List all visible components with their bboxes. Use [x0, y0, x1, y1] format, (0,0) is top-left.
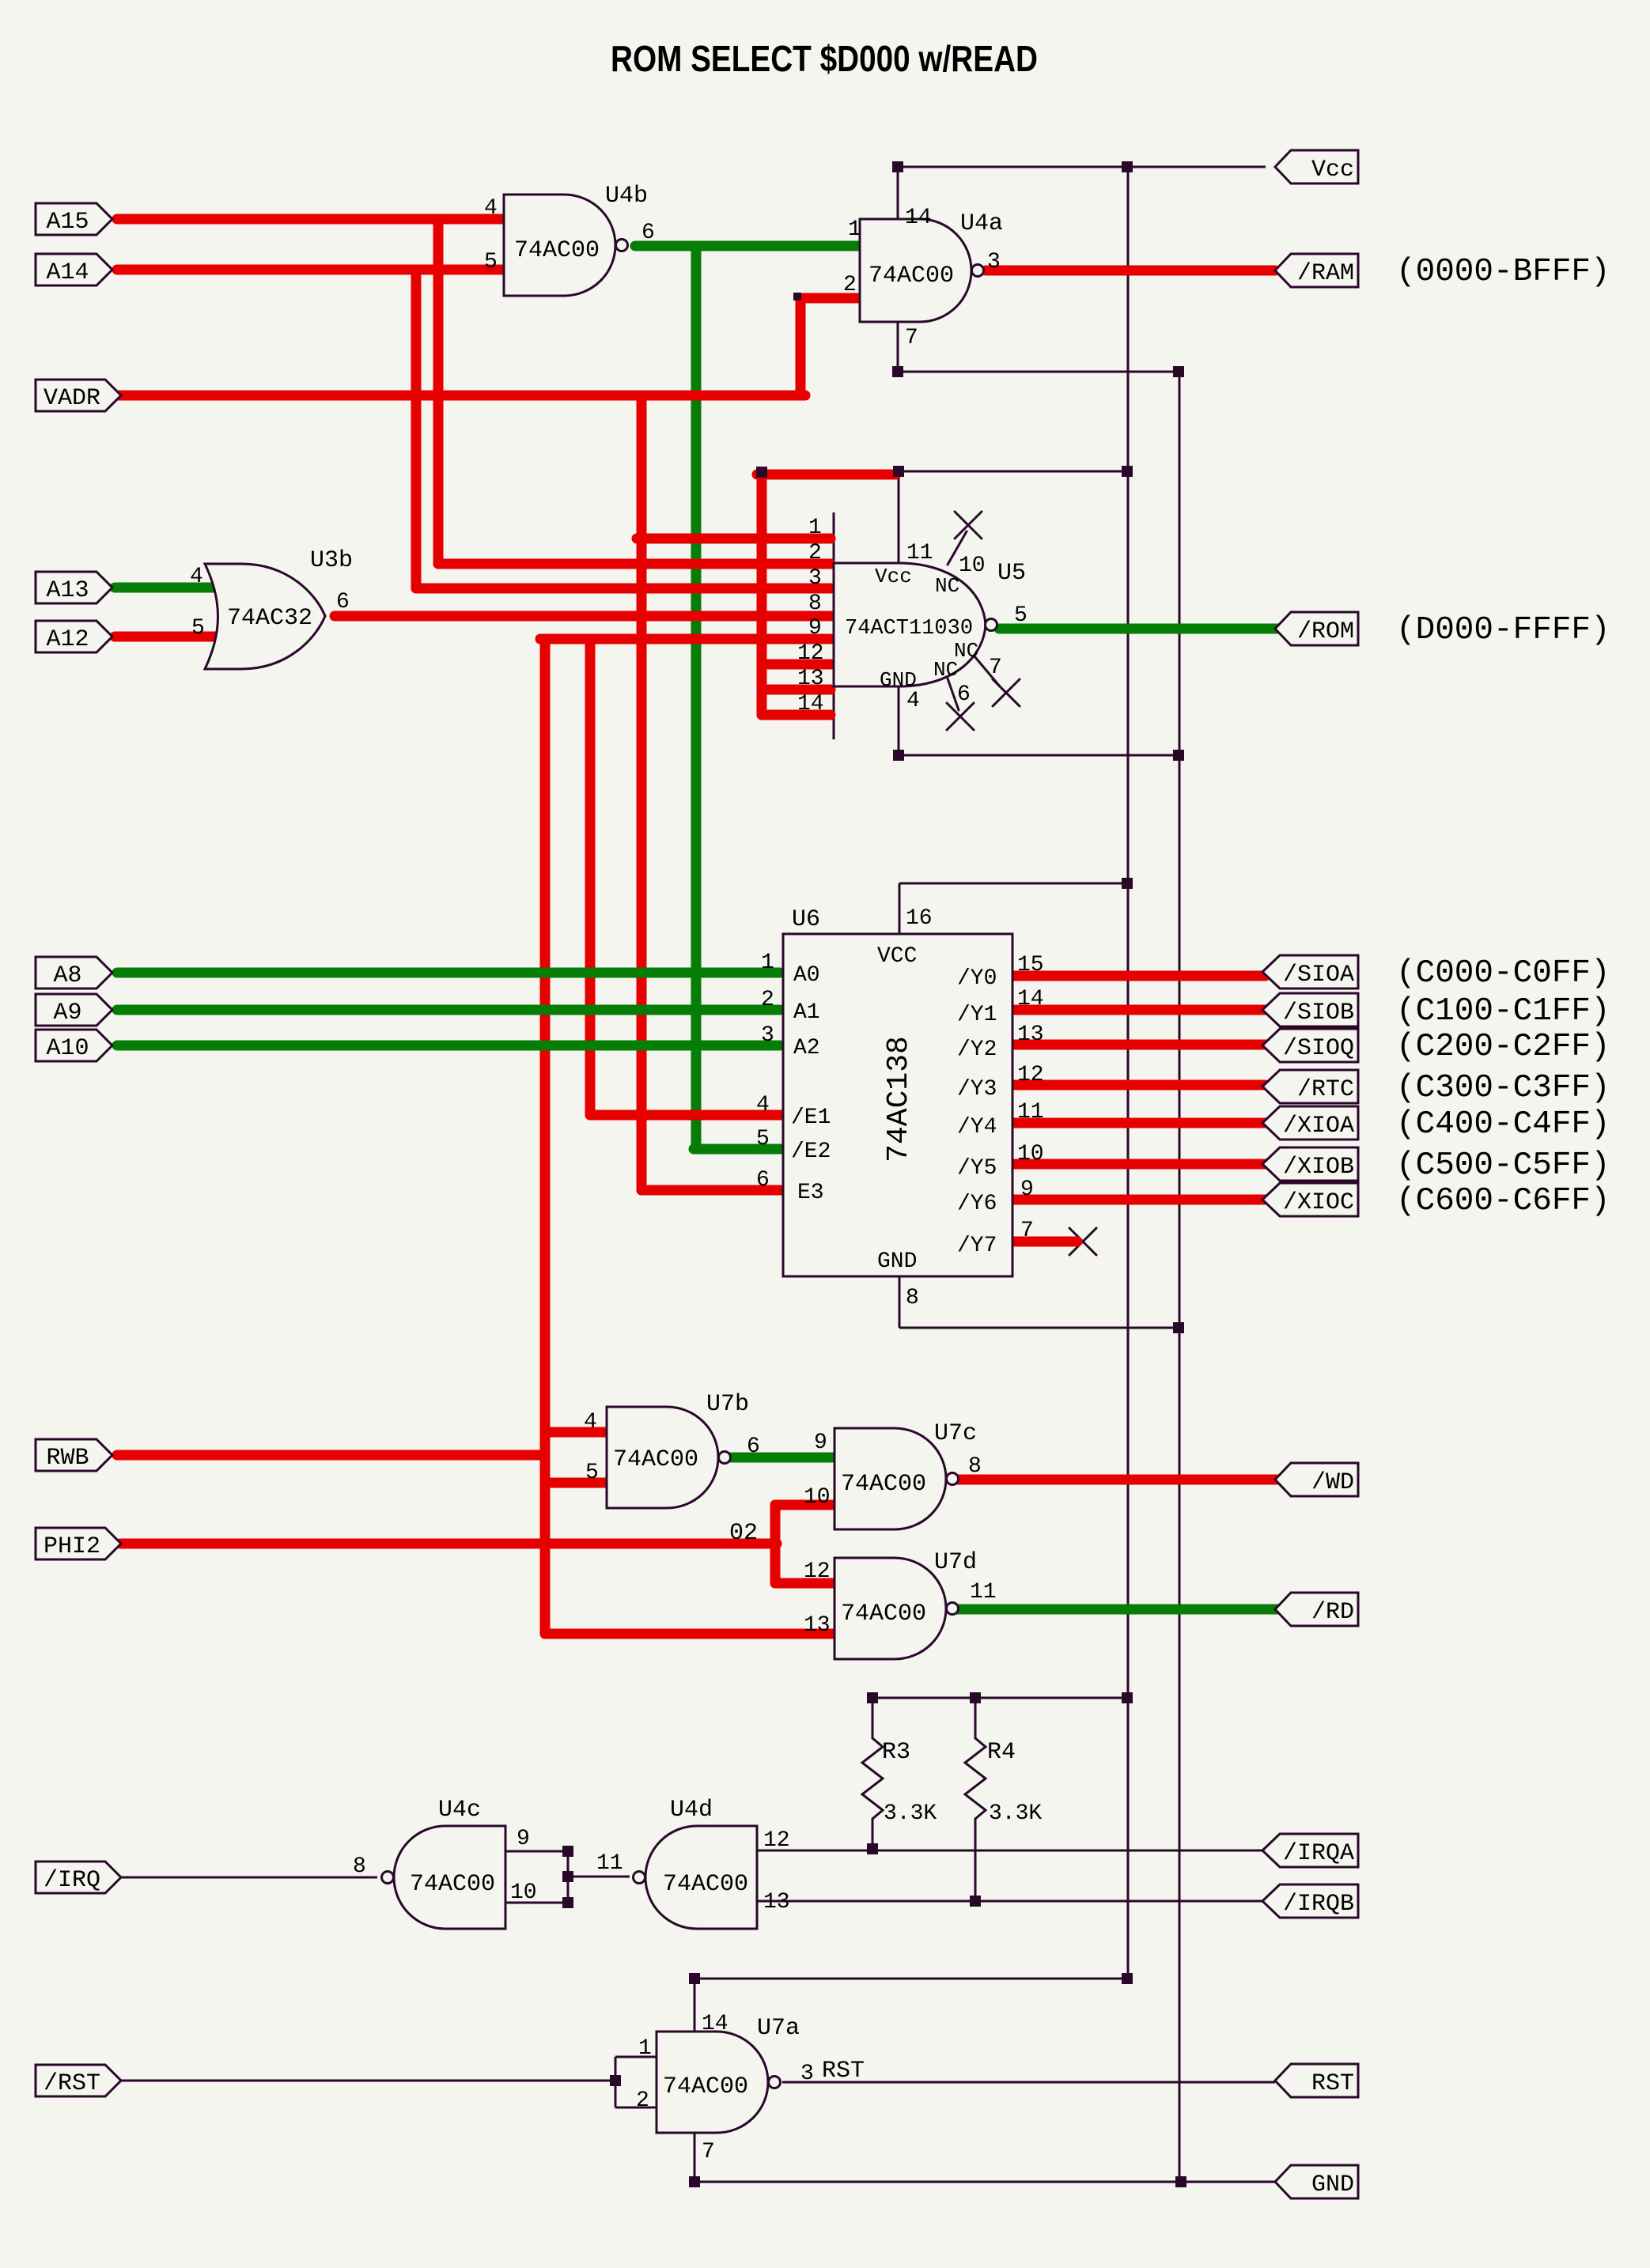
svg-text:A1: A1: [793, 1000, 820, 1025]
svg-text:1: 1: [638, 2036, 652, 2061]
svg-text:/Y1: /Y1: [957, 1003, 997, 1027]
svg-text:10: 10: [510, 1881, 537, 1905]
svg-text:Vcc: Vcc: [875, 565, 912, 588]
svg-text:NC: NC: [933, 658, 958, 682]
svg-text:/IRQA: /IRQA: [1283, 1840, 1354, 1867]
svg-text:4: 4: [584, 1410, 597, 1435]
svg-text:74AC00: 74AC00: [410, 1871, 495, 1898]
svg-text:A12: A12: [46, 626, 89, 653]
svg-text:13: 13: [1017, 1022, 1044, 1047]
svg-text:6: 6: [641, 221, 655, 245]
svg-text:7: 7: [905, 326, 918, 350]
svg-text:74AC00: 74AC00: [841, 1471, 926, 1498]
svg-text:13: 13: [763, 1890, 790, 1915]
svg-text:4: 4: [756, 1093, 770, 1117]
svg-text:(C600-C6FF): (C600-C6FF): [1396, 1183, 1610, 1219]
svg-text:12: 12: [763, 1828, 790, 1853]
svg-text:/RD: /RD: [1311, 1599, 1354, 1626]
svg-text:(C200-C2FF): (C200-C2FF): [1396, 1029, 1610, 1065]
svg-text:/E2: /E2: [791, 1140, 831, 1164]
svg-text:5: 5: [1014, 603, 1027, 628]
svg-text:9: 9: [1020, 1177, 1034, 1202]
svg-text:6: 6: [756, 1168, 770, 1193]
svg-text:(0000-BFFF): (0000-BFFF): [1396, 254, 1610, 290]
svg-text:(C400-C4FF): (C400-C4FF): [1396, 1106, 1610, 1143]
svg-text:74AC00: 74AC00: [613, 1446, 698, 1473]
svg-text:A9: A9: [53, 1000, 81, 1026]
svg-text:/XIOB: /XIOB: [1283, 1154, 1354, 1181]
svg-text:RST: RST: [1311, 2070, 1354, 2097]
svg-text:10: 10: [1017, 1142, 1044, 1166]
svg-text:6: 6: [336, 590, 350, 614]
svg-text:13: 13: [804, 1613, 831, 1638]
svg-text:(C300-C3FF): (C300-C3FF): [1396, 1070, 1610, 1106]
svg-text:U7d: U7d: [934, 1549, 977, 1576]
svg-text:74AC138: 74AC138: [882, 1036, 916, 1162]
svg-text:11: 11: [906, 541, 933, 565]
svg-text:12: 12: [804, 1559, 831, 1584]
svg-text:5: 5: [585, 1461, 599, 1485]
svg-text:A8: A8: [53, 962, 81, 989]
svg-text:/Y2: /Y2: [957, 1038, 997, 1062]
svg-text:/IRQ: /IRQ: [44, 1867, 100, 1894]
svg-text:GND: GND: [877, 1249, 917, 1274]
svg-text:U4d: U4d: [670, 1797, 713, 1824]
svg-text:E3: E3: [797, 1181, 824, 1205]
svg-text:A2: A2: [793, 1036, 820, 1060]
svg-text:02: 02: [729, 1520, 758, 1547]
svg-text:R3: R3: [882, 1739, 910, 1766]
svg-text:10: 10: [804, 1485, 831, 1510]
svg-text:A0: A0: [793, 963, 820, 988]
svg-text:13: 13: [797, 667, 824, 691]
svg-text:A13: A13: [46, 577, 89, 604]
svg-text:2: 2: [636, 2088, 649, 2113]
svg-text:14: 14: [702, 2012, 728, 2036]
svg-text:4: 4: [906, 689, 920, 713]
svg-text:6: 6: [957, 682, 971, 707]
svg-text:(C500-C5FF): (C500-C5FF): [1396, 1147, 1610, 1184]
svg-text:RWB: RWB: [46, 1445, 89, 1472]
svg-text:U6: U6: [792, 906, 820, 933]
svg-text:7: 7: [702, 2140, 715, 2164]
svg-text:3.3K: 3.3K: [989, 1801, 1042, 1826]
svg-text:4: 4: [484, 196, 498, 221]
svg-text:Vcc: Vcc: [1311, 157, 1354, 183]
svg-text:9: 9: [808, 616, 822, 641]
svg-text:8: 8: [808, 592, 822, 616]
svg-text:5: 5: [191, 616, 205, 641]
svg-text:U4c: U4c: [438, 1797, 481, 1824]
svg-text:ROM SELECT $D000 w/READ: ROM SELECT $D000 w/READ: [611, 38, 1038, 79]
svg-text:74ACT11030: 74ACT11030: [845, 617, 973, 641]
svg-text:VADR: VADR: [44, 385, 100, 412]
svg-text:2: 2: [761, 988, 774, 1012]
svg-text:3: 3: [800, 2062, 814, 2086]
svg-text:U7a: U7a: [757, 2015, 800, 2042]
svg-text:8: 8: [353, 1854, 366, 1879]
svg-text:R4: R4: [987, 1739, 1016, 1766]
svg-text:/RAM: /RAM: [1297, 260, 1354, 287]
svg-text:GND: GND: [1311, 2172, 1354, 2198]
svg-text:74AC00: 74AC00: [663, 2073, 748, 2100]
svg-text:NC: NC: [935, 574, 959, 598]
svg-text:5: 5: [484, 250, 498, 274]
svg-text:/RST: /RST: [44, 2070, 100, 2097]
svg-text:11: 11: [596, 1851, 623, 1876]
svg-text:/IRQB: /IRQB: [1283, 1891, 1354, 1918]
svg-text:11: 11: [1017, 1100, 1044, 1125]
svg-text:74AC00: 74AC00: [663, 1871, 748, 1898]
svg-text:U4a: U4a: [960, 210, 1003, 237]
svg-text:/SIOB: /SIOB: [1283, 1000, 1354, 1026]
svg-text:9: 9: [517, 1827, 530, 1851]
svg-text:74AC00: 74AC00: [514, 237, 600, 264]
svg-text:14: 14: [905, 206, 932, 230]
svg-text:A15: A15: [46, 209, 89, 236]
svg-text:VCC: VCC: [877, 944, 917, 969]
svg-text:3.3K: 3.3K: [884, 1801, 937, 1826]
svg-text:U5: U5: [997, 560, 1026, 587]
svg-text:9: 9: [814, 1431, 827, 1455]
svg-text:/XIOA: /XIOA: [1283, 1113, 1354, 1140]
svg-text:3: 3: [987, 250, 1001, 274]
svg-text:/SIOQ: /SIOQ: [1283, 1035, 1354, 1062]
svg-text:A14: A14: [46, 259, 89, 286]
svg-text:74AC32: 74AC32: [227, 605, 312, 632]
svg-text:8: 8: [906, 1286, 919, 1310]
svg-text:/Y6: /Y6: [957, 1192, 997, 1216]
svg-text:3: 3: [808, 566, 822, 591]
svg-text:/Y3: /Y3: [957, 1077, 997, 1102]
svg-text:11: 11: [970, 1580, 997, 1605]
svg-text:16: 16: [906, 906, 933, 931]
svg-text:7: 7: [1020, 1219, 1034, 1243]
svg-text:5: 5: [756, 1127, 770, 1151]
svg-text:(C100-C1FF): (C100-C1FF): [1396, 993, 1610, 1030]
svg-text:8: 8: [968, 1454, 982, 1479]
svg-text:PHI2: PHI2: [44, 1533, 100, 1560]
svg-text:/WD: /WD: [1311, 1469, 1354, 1496]
svg-text:U7b: U7b: [706, 1391, 749, 1418]
svg-text:1: 1: [761, 951, 774, 975]
svg-text:/Y4: /Y4: [957, 1115, 997, 1140]
svg-text:14: 14: [1017, 987, 1044, 1011]
svg-text:74AC00: 74AC00: [841, 1601, 926, 1627]
svg-text:/Y7: /Y7: [957, 1234, 997, 1258]
svg-text:/E1: /E1: [791, 1106, 831, 1130]
svg-text:2: 2: [808, 541, 822, 565]
svg-text:10: 10: [959, 554, 986, 578]
svg-text:U7c: U7c: [934, 1420, 977, 1447]
svg-text:/SIOA: /SIOA: [1283, 962, 1354, 988]
svg-text:12: 12: [1017, 1063, 1044, 1087]
svg-text:(C000-C0FF): (C000-C0FF): [1396, 955, 1610, 992]
svg-text:12: 12: [797, 641, 824, 666]
svg-text:14: 14: [797, 692, 824, 716]
svg-text:(D000-FFFF): (D000-FFFF): [1396, 612, 1610, 648]
svg-text:U4b: U4b: [605, 183, 648, 210]
svg-text:A10: A10: [46, 1035, 89, 1062]
svg-text:U3b: U3b: [310, 547, 353, 574]
svg-text:6: 6: [747, 1435, 760, 1459]
svg-text:/XIOC: /XIOC: [1283, 1189, 1354, 1216]
svg-text:74AC00: 74AC00: [869, 263, 954, 289]
svg-text:4: 4: [190, 565, 203, 589]
svg-text:/Y5: /Y5: [957, 1156, 997, 1181]
svg-text:1: 1: [848, 217, 861, 242]
svg-text:RST: RST: [822, 2058, 865, 2085]
svg-text:2: 2: [843, 273, 857, 297]
svg-text:7: 7: [989, 656, 1002, 680]
svg-text:15: 15: [1017, 953, 1044, 977]
svg-text:/RTC: /RTC: [1297, 1076, 1354, 1103]
svg-text:/Y0: /Y0: [957, 966, 997, 991]
svg-text:/ROM: /ROM: [1297, 618, 1354, 645]
svg-text:1: 1: [808, 516, 822, 540]
svg-text:3: 3: [761, 1023, 774, 1048]
